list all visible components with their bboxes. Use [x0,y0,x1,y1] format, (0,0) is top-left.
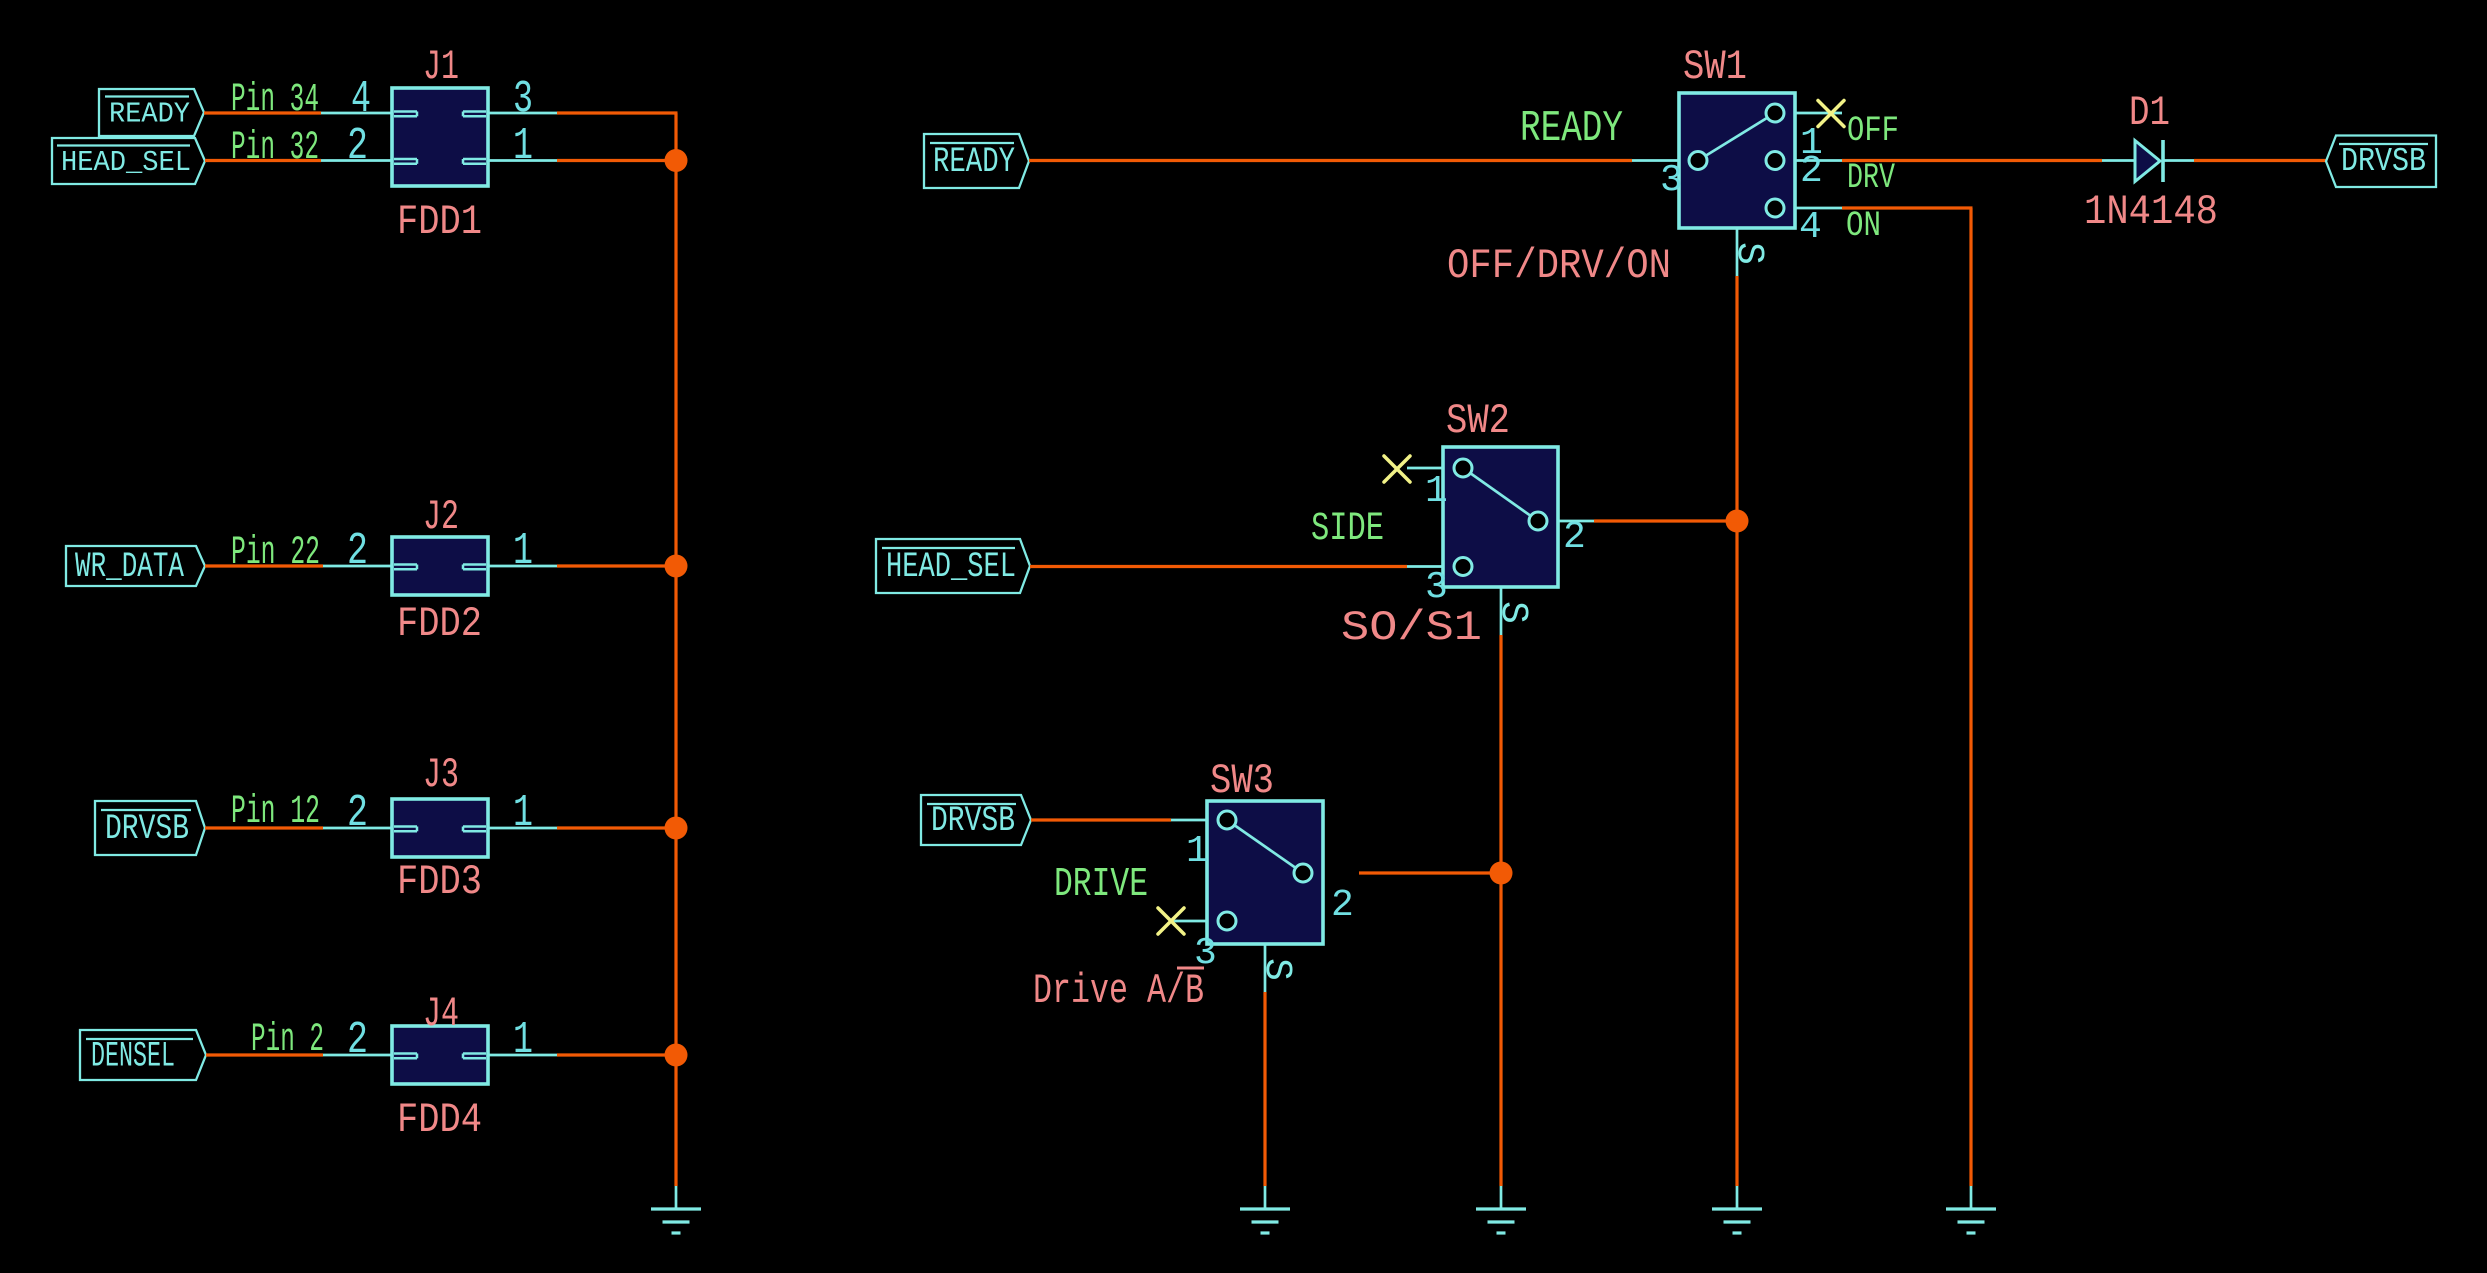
wire HEAD_SEL to J1 pin 2 [205,159,321,162]
svg-text:OFF/DRV/ON: OFF/DRV/ON [1447,242,1671,290]
wire J1 pin 3 to trunk [557,111,678,114]
svg-text:READY: READY [109,98,190,131]
svg-text:2: 2 [1800,150,1823,193]
svg-text:FDD3: FDD3 [397,858,482,906]
SW3 pin 3 contact [1218,912,1236,930]
no-connect X on SW3 pin 3 [1158,908,1184,934]
svg-text:2: 2 [347,121,368,172]
svg-text:SW3: SW3 [1210,757,1274,805]
SW3 pin 1 stub [1171,819,1207,822]
connector J1 body [392,88,488,186]
SW2 lever [1463,468,1538,521]
wire SW1 pin 4 (ON) right [1842,206,1973,209]
junction SW3 output / SW2 S trunk [1490,862,1513,885]
wire READY to J1 pin 4 [204,111,321,114]
ground (SW2) [1500,1186,1503,1208]
SW1 pin S stub [1736,228,1739,276]
SW3 pin 2 contact [1294,864,1312,882]
global label DRVSB (to J3 pin 2) [95,801,205,855]
J1 pin 3 socket notch [463,110,486,113]
SW2 pin 3 stub [1407,565,1443,568]
svg-text:DRVSB: DRVSB [931,801,1015,841]
SW1 pin 2 stub [1795,159,1842,162]
J3 pin 1 socket notch [463,825,486,828]
svg-text:Pin 34: Pin 34 [231,78,319,123]
global label DRVSB (to SW3 pin 1) [921,795,1031,845]
SW1 pin 2 contact [1766,152,1784,170]
svg-text:SW2: SW2 [1446,397,1510,445]
global label HEAD_SEL (to J1 pin 2) [52,138,205,184]
J1 pin 3 stub [488,112,557,115]
switch SW1 body [1679,93,1795,228]
svg-text:1: 1 [513,788,533,839]
svg-text:2: 2 [1331,884,1354,927]
wire SW2 S down to ground [1499,635,1502,1186]
ground (ON wire) [1970,1186,1973,1208]
wire J4 pin 1 to trunk [557,1053,676,1056]
wire SW1 S down to ground [1735,276,1738,1186]
SW1 pin 4 contact [1766,199,1784,217]
SW3 pin S stub [1264,944,1267,992]
svg-text:HEAD_SEL: HEAD_SEL [61,146,191,179]
connector J4 body [392,1026,488,1084]
svg-text:FDD2: FDD2 [397,600,482,648]
J1 pin 4 socket notch [394,110,417,113]
svg-text:3: 3 [1660,159,1683,202]
svg-text:FDD1: FDD1 [397,198,482,246]
svg-text:1: 1 [1186,830,1209,873]
global label READY (to SW1 pin 3) [924,134,1029,188]
svg-text:S: S [1491,601,1534,624]
wire ON down to ground [1969,208,1972,1186]
J2 pin 2 socket notch [394,563,417,566]
svg-text:3: 3 [513,74,533,125]
ground (SW1 S) [1736,1186,1739,1208]
diode D1 cathode stub [2163,159,2194,162]
junction at J3 pin 1 / trunk [665,817,688,840]
wire SW2 pin 2 to trunk junction [1594,519,1737,522]
wire DRVSB to SW3 pin 1 [1031,818,1171,821]
global label DENSEL (to J4 pin 2) [80,1030,206,1080]
svg-text:HEAD_SEL: HEAD_SEL [886,547,1016,587]
svg-text:4: 4 [351,74,371,125]
svg-text:3: 3 [1425,566,1448,609]
junction at J4 pin 1 / trunk [665,1044,688,1067]
svg-text:DRVSB: DRVSB [105,809,189,849]
global label READY (to J1 pin 4) [99,89,204,136]
switch SW3 body [1207,801,1323,944]
wire J3 pin 1 to trunk [557,826,676,829]
svg-text:1N4148: 1N4148 [2084,188,2218,236]
SW1 pin 1 stub [1795,112,1842,115]
svg-text:READY: READY [1520,104,1623,154]
trunk vertical wire [674,113,677,1186]
global label HEAD_SEL (to SW2 pin 3) [876,539,1030,593]
svg-text:READY: READY [933,142,1015,182]
SW1 pin 1 contact [1766,104,1784,122]
svg-text:S: S [1255,958,1298,981]
svg-text:D1: D1 [2129,89,2170,137]
svg-text:FDD4: FDD4 [397,1096,482,1144]
ground (trunk) [675,1186,678,1208]
J4 pin 2 stub [323,1054,392,1057]
svg-text:SO/S1: SO/S1 [1341,604,1482,652]
SW2 pin S stub [1500,587,1503,635]
svg-text:2: 2 [347,788,368,839]
J3 pin 1 stub [488,827,557,830]
SW3 pin 1 contact [1218,811,1236,829]
svg-text:OFF: OFF [1847,111,1899,151]
J4 pin 1 socket notch [463,1052,486,1055]
svg-text:1: 1 [1425,470,1448,513]
J4 pin 1 stub [488,1054,557,1057]
SW3 lever [1227,820,1303,873]
svg-text:J2: J2 [423,493,459,541]
no-connect X on SW1 pin 1 [1818,101,1844,127]
diode D1 triangle [2135,141,2160,182]
svg-text:J1: J1 [423,43,459,91]
J4 pin 2 socket notch [394,1052,417,1055]
svg-text:ON: ON [1846,206,1881,246]
svg-text:2: 2 [347,1015,368,1066]
wire WR_DATA to J2 pin 2 [205,564,323,567]
svg-text:DENSEL: DENSEL [91,1037,175,1077]
J2 pin 2 stub [323,565,392,568]
J1 pin 2 stub [321,159,392,162]
SW1 pin 4 stub [1795,207,1842,210]
svg-text:SW1: SW1 [1683,43,1747,91]
connector J2 body [392,537,488,595]
J1 pin 1 socket notch [463,158,486,161]
SW2 pin 2 contact [1529,512,1547,530]
SW2 pin 3 contact [1454,558,1472,576]
svg-text:Pin 2: Pin 2 [251,1018,324,1063]
svg-text:1: 1 [513,526,533,577]
SW2 pin 1 contact [1454,459,1472,477]
junction at J2 pin 1 / trunk [665,555,688,578]
svg-text:DRVSB: DRVSB [2341,143,2426,180]
svg-text:DRV: DRV [1847,158,1895,198]
wire DENSEL to J4 pin 2 [206,1053,323,1056]
wire READY to SW1 pin 3 [1029,159,1632,162]
wire HEAD_SEL to SW2 pin 3 [1030,565,1407,568]
no-connect X on SW2 pin 1 [1384,456,1410,482]
switch SW2 body [1443,447,1558,587]
svg-text:S: S [1727,242,1770,265]
svg-text:4: 4 [1799,206,1822,249]
svg-text:1: 1 [513,1015,533,1066]
SW3 pin 3 stub [1171,920,1207,923]
junction SW2 output / SW1 S trunk [1726,510,1749,533]
svg-text:SIDE: SIDE [1311,507,1384,552]
svg-text:2: 2 [1563,516,1586,559]
wire SW3 pin 2 to trunk junction [1359,871,1501,874]
wire SW3 S down to ground [1263,992,1266,1186]
svg-text:Pin 32: Pin 32 [231,126,319,171]
SW1 lever [1698,113,1775,161]
svg-text:DRIVE: DRIVE [1054,862,1148,908]
svg-text:1: 1 [513,121,533,172]
wire SW1 pin 2 to D1 [1842,159,2102,162]
svg-text:Pin 22: Pin 22 [231,531,320,576]
J3 pin 2 socket notch [394,825,417,828]
J2 pin 1 socket notch [463,563,486,566]
J1 pin 2 socket notch [394,158,417,161]
wire DRVSB to J3 pin 2 [205,826,323,829]
SW1 pin 3 stub [1632,159,1679,162]
svg-text:2: 2 [347,526,368,577]
global label DRVSB (output, right) [2326,136,2436,188]
J2 pin 1 stub [488,565,557,568]
connector J3 body [392,799,488,857]
wire D1 to DRVSB [2194,159,2326,162]
wire J1 pin 1 to trunk [557,159,676,162]
J1 pin 1 stub [488,159,557,162]
junction at J1 pin 1 / trunk [665,149,688,172]
J1 pin 4 stub [321,112,392,115]
SW2 pin 2 stub [1558,520,1594,523]
SW2 pin 1 stub [1407,467,1443,470]
SW1 pin 3 contact [1689,152,1707,170]
global label WR_DATA (to J2 pin 2) [66,546,205,586]
wire J2 pin 1 to trunk [557,564,676,567]
ground (SW3) [1264,1186,1267,1208]
diode D1 anode stub [2102,159,2135,162]
J3 pin 2 stub [323,827,392,830]
svg-text:WR_DATA: WR_DATA [75,547,184,587]
svg-text:J4: J4 [423,990,459,1038]
svg-text:Drive A/B: Drive A/B [1033,967,1204,1015]
svg-text:Pin 12: Pin 12 [231,790,320,835]
diode D1 cathode bar [2161,140,2165,182]
svg-text:J3: J3 [423,751,459,799]
